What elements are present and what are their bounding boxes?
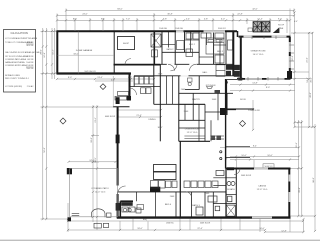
svg-text:9'-0": 9'-0" [278,19,282,21]
svg-text:4612 SF: 4612 SF [26,45,34,47]
svg-text:KITCHEN: KITCHEN [206,85,216,87]
svg-text:CALCULATED FLOOR AREAS (ACTUAL: CALCULATED FLOOR AREAS (ACTUAL) [5,51,41,54]
svg-text:BED 4: BED 4 [165,204,172,206]
svg-text:3-CAR GARAGE: 3-CAR GARAGE [76,49,93,52]
svg-text:14'-4": 14'-4" [53,49,55,55]
svg-text:2.50 AC: 2.50 AC [27,85,34,88]
svg-text:1ST FLOOR LIVING AREA: 1ST FLOOR LIVING AREA [5,55,29,58]
svg-text:12'-0" CLG: 12'-0" CLG [95,191,106,193]
svg-text:ROOF: ROOF [278,25,285,27]
svg-text:108 SF: 108 SF [27,65,34,67]
svg-text:8'-4": 8'-4" [253,146,257,148]
svg-text:16'-4": 16'-4" [157,127,162,129]
svg-text:2040 SH: 2040 SH [159,28,167,30]
svg-text:662 SF: 662 SF [27,59,34,61]
svg-text:NOOK: NOOK [240,99,247,101]
svg-text:24'-0": 24'-0" [307,57,309,63]
svg-text:12'-8" CLG: 12'-8" CLG [257,189,268,191]
svg-text:CASITA: CASITA [258,185,266,188]
svg-text:12068 SLDR: 12068 SLDR [248,110,260,112]
svg-text:6068 SLDR: 6068 SLDR [105,116,116,118]
svg-text:12'-0": 12'-0" [292,55,294,61]
svg-text:5'-4": 5'-4" [186,19,190,21]
svg-text:2040 SH: 2040 SH [175,28,183,30]
svg-text:21'-4": 21'-4" [136,115,142,117]
svg-text:BED 3: BED 3 [217,51,224,53]
svg-text:10'-0": 10'-0" [241,155,247,157]
svg-text:68'-0": 68'-0" [313,177,315,183]
svg-text:21'-4": 21'-4" [95,117,97,123]
svg-text:LIVING ROOM: LIVING ROOM [185,129,200,131]
svg-text:34'-0": 34'-0" [73,53,79,55]
svg-text:16'-0": 16'-0" [267,155,273,157]
svg-text:DINING: DINING [149,119,156,121]
svg-text:8'-0": 8'-0" [68,77,72,79]
svg-text:M BATH: M BATH [227,188,235,191]
svg-text:12'-0" CLG: 12'-0" CLG [187,132,198,134]
svg-text:46'-0": 46'-0" [310,92,312,98]
svg-text:LINE: LINE [279,28,284,30]
svg-text:GREAT ROOM: GREAT ROOM [251,50,266,53]
svg-text:24'-8": 24'-8" [44,52,46,58]
svg-text:13'-4": 13'-4" [97,77,103,79]
svg-text:5562 SF: 5562 SF [26,68,34,70]
svg-text:84'-0": 84'-0" [117,9,123,11]
svg-text:12'-4": 12'-4" [257,19,263,21]
svg-text:GARAGE/SHOP AREA: GARAGE/SHOP AREA [5,61,25,64]
svg-text:42'-0": 42'-0" [252,9,258,11]
svg-text:SETBACK LINES: SETBACK LINES [5,74,21,77]
svg-text:5040 XO: 5040 XO [218,28,226,30]
svg-text:38'-4": 38'-4" [95,157,97,163]
svg-text:12'-8": 12'-8" [281,230,287,232]
svg-text:SHOP: SHOP [123,43,130,45]
svg-text:22'-8": 22'-8" [237,14,243,16]
svg-text:6'-0": 6'-0" [221,19,225,21]
svg-text:22'-4": 22'-4" [197,228,203,230]
svg-text:2668 SC: 2668 SC [166,222,174,224]
svg-text:16'-0": 16'-0" [259,228,265,230]
svg-text:BATH 2: BATH 2 [167,48,175,51]
svg-text:PER COUNTY ZONING R-1: PER COUNTY ZONING R-1 [5,78,29,80]
svg-text:6'-8": 6'-8" [163,19,167,21]
svg-text:30'-8": 30'-8" [167,14,173,16]
svg-text:4'-4": 4'-4" [294,21,298,23]
svg-text:20'-0": 20'-0" [40,49,42,55]
svg-text:10'-0": 10'-0" [91,137,93,143]
svg-text:3748 SF: 3748 SF [26,56,34,58]
svg-text:5068 SLDR: 5068 SLDR [241,175,252,177]
svg-text:PANTRY: PANTRY [192,98,201,101]
svg-text:LOT SIZE (GROSS): LOT SIZE (GROSS) [5,86,22,88]
svg-text:6'-8": 6'-8" [128,77,132,79]
svg-text:COVERED PATIO AREA: COVERED PATIO AREA [5,58,27,61]
svg-text:4612 SF: 4612 SF [26,42,34,44]
svg-text:24'-0": 24'-0" [82,14,88,16]
svg-text:46'-0": 46'-0" [311,77,313,83]
svg-text:BBQ: BBQ [143,219,148,221]
svg-text:8'-0": 8'-0" [266,87,270,89]
svg-text:51'-4": 51'-4" [307,77,309,83]
svg-text:52'-0": 52'-0" [44,147,46,153]
svg-text:COVERED ENTRY AREA: COVERED ENTRY AREA [5,64,28,67]
svg-text:4'-0": 4'-0" [111,79,115,81]
svg-text:14'-8": 14'-8" [252,83,258,85]
svg-text:HALL: HALL [202,71,208,74]
svg-text:4'-8": 4'-8" [204,19,208,21]
svg-text:COVERED PATIO: COVERED PATIO [91,187,109,190]
svg-text:26'-8": 26'-8" [299,187,301,193]
svg-text:1044 SF: 1044 SF [26,62,34,64]
svg-text:7'-0": 7'-0" [126,19,130,21]
svg-text:16/8 OH DR: 16/8 OH DR [84,71,96,73]
svg-text:19'-6": 19'-6" [296,142,298,148]
svg-text:CALCULATIONS: CALCULATIONS [10,32,28,35]
svg-text:14'-0" CLG: 14'-0" CLG [253,54,264,56]
svg-text:18'-0": 18'-0" [137,228,143,230]
svg-text:LOT COVERAGE PERMITTED AREA: LOT COVERAGE PERMITTED AREA [5,37,38,40]
svg-text:5068 SLDR: 5068 SLDR [200,222,211,224]
svg-text:BED 2: BED 2 [189,44,196,46]
svg-text:BATH 3: BATH 3 [192,204,200,207]
